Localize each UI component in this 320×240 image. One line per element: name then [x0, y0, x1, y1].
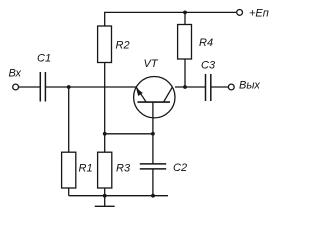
svg-text:VT: VT — [144, 58, 159, 70]
node junction collector R4 — [183, 85, 187, 89]
wire collector to C3 — [175, 86, 205, 88]
wire R2 bottom to base node down to R3 — [104, 63, 106, 153]
svg-text:R2: R2 — [116, 40, 130, 52]
wire C2 bottom stem — [152, 169, 154, 196]
svg-text:Вх: Вх — [9, 68, 22, 80]
svg-text:C2: C2 — [173, 162, 187, 174]
resistor R4 — [178, 25, 192, 60]
wire top supply rail — [105, 12, 237, 26]
wire bottom ground rail — [69, 195, 168, 197]
transistor VT — [134, 77, 175, 134]
svg-text:+Еп: +Еп — [249, 8, 269, 20]
ground — [95, 196, 115, 207]
node junction on top rail (R4 to +Ep) — [183, 11, 187, 15]
wire R4 top stem — [184, 12, 186, 24]
wire R3 bottom stem — [104, 188, 106, 196]
wire base lead to C2 — [152, 134, 154, 164]
resistor R2 — [98, 26, 112, 63]
node junction R3 to ground rail — [103, 194, 107, 198]
terminal Vyx output — [228, 84, 234, 90]
node junction base lead to bypass link — [151, 132, 155, 136]
wire C1 to transistor emitter — [46, 86, 136, 88]
svg-text:C3: C3 — [201, 60, 216, 72]
capacitor C2 — [140, 164, 166, 169]
node junction at R1 top — [67, 85, 71, 89]
wire base link to transistor base lead — [105, 133, 153, 135]
terminal +Ep — [237, 10, 243, 16]
wire C3 to output terminal — [211, 86, 228, 88]
node base divider junction — [103, 132, 107, 136]
wire R4 bottom stem — [184, 59, 186, 87]
resistor R1 — [62, 152, 76, 188]
terminal Vx input — [13, 84, 19, 90]
svg-text:R3: R3 — [116, 163, 131, 175]
svg-text:R4: R4 — [199, 37, 213, 49]
capacitor C1 — [40, 72, 45, 102]
svg-text:R1: R1 — [79, 163, 93, 175]
resistor R3 — [98, 152, 112, 188]
wire R1 top stem — [68, 87, 70, 152]
capacitor C3 — [206, 74, 211, 101]
wire input to C1 — [19, 86, 40, 88]
svg-text:Вых: Вых — [239, 79, 260, 91]
wire R1 bottom stem — [68, 188, 70, 196]
svg-text:C1: C1 — [37, 53, 51, 65]
node junction C2 to ground rail — [151, 194, 155, 198]
